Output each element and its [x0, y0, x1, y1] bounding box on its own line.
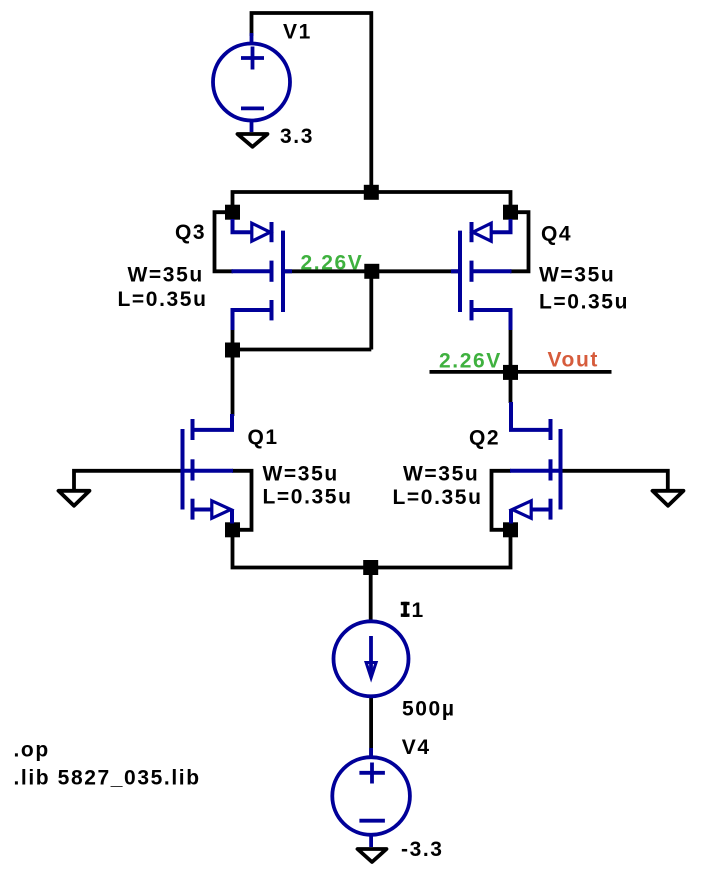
junction node tail	[363, 560, 378, 575]
svg-text:Vout: Vout	[548, 348, 600, 371]
svg-text:Q2: Q2	[469, 427, 500, 450]
junction node Vout	[503, 365, 518, 380]
svg-text:W=35u: W=35u	[128, 263, 204, 286]
wire Q3 bulk-to-source loop	[215, 212, 234, 271]
junction node Q3 drain	[225, 343, 240, 358]
svg-text:V1: V1	[283, 20, 312, 43]
svg-text:Q4: Q4	[541, 223, 572, 246]
svg-text:W=35u: W=35u	[263, 463, 339, 486]
nmos Q1	[181, 414, 234, 524]
svg-text:500µ: 500µ	[402, 698, 456, 721]
svg-text:V4: V4	[402, 736, 431, 759]
junction node Q3 source	[225, 205, 240, 220]
junction node Q1 source	[225, 522, 240, 537]
ground bottom	[358, 849, 387, 862]
nmos Q2	[510, 402, 563, 524]
svg-text:L=0.35u: L=0.35u	[263, 486, 353, 509]
junction node top rail	[364, 185, 379, 200]
wire Q4 drain to Vout node	[509, 329, 513, 403]
svg-text:2.26V: 2.26V	[301, 251, 364, 274]
svg-text:3.3: 3.3	[280, 125, 314, 148]
wire Q2 source to tail	[371, 531, 511, 568]
current source I1	[334, 621, 409, 696]
svg-text:1: 1	[412, 599, 425, 622]
wire Q4 bulk-to-source loop	[510, 212, 529, 271]
svg-text:-3.3: -3.3	[401, 838, 444, 861]
wire I1 to V4	[369, 696, 373, 758]
pmos Q4	[451, 219, 512, 330]
svg-text:.lib 5827_035.lib: .lib 5827_035.lib	[14, 767, 201, 790]
wire left ground to Q1 gate	[74, 471, 183, 491]
junction node Q4 source	[503, 205, 518, 220]
pmos Q3	[232, 219, 293, 330]
svg-text:L=0.35u: L=0.35u	[539, 291, 629, 314]
wire tail node to I1	[369, 568, 373, 622]
ground left (Q1 gate)	[59, 491, 90, 506]
voltage source V1	[213, 33, 290, 132]
wire Vout horizontal	[430, 370, 612, 374]
wire Q2 gate to right ground	[561, 471, 668, 491]
wire Q2 bulk loop	[492, 471, 512, 530]
wire Q3 drain to Q1 drain	[231, 329, 235, 416]
ground right (Q2 gate)	[653, 491, 684, 506]
svg-text:Q3: Q3	[175, 221, 206, 244]
wire gate node down	[369, 274, 373, 350]
junction node Q2 source	[503, 522, 518, 537]
label I1	[401, 602, 410, 617]
wire Q3 drain cross	[233, 348, 372, 352]
wire V1 top to rail	[252, 13, 372, 190]
svg-text:2.26V: 2.26V	[439, 350, 502, 373]
wire Q1 source to tail	[233, 531, 371, 568]
wire Q1 bulk loop	[232, 471, 252, 530]
wire gate node Q3-Q4	[283, 269, 460, 273]
svg-text:Q1: Q1	[248, 426, 279, 449]
junction node gate 2.26V	[364, 264, 379, 279]
ground below V1	[238, 134, 268, 147]
svg-text:L=0.35u: L=0.35u	[393, 486, 483, 509]
svg-text:W=35u: W=35u	[403, 462, 479, 485]
svg-text:W=35u: W=35u	[539, 263, 615, 286]
svg-text:L=0.35u: L=0.35u	[118, 288, 208, 311]
voltage source V4	[332, 748, 410, 847]
wire top rail	[233, 192, 511, 207]
svg-text:.op: .op	[14, 739, 50, 762]
